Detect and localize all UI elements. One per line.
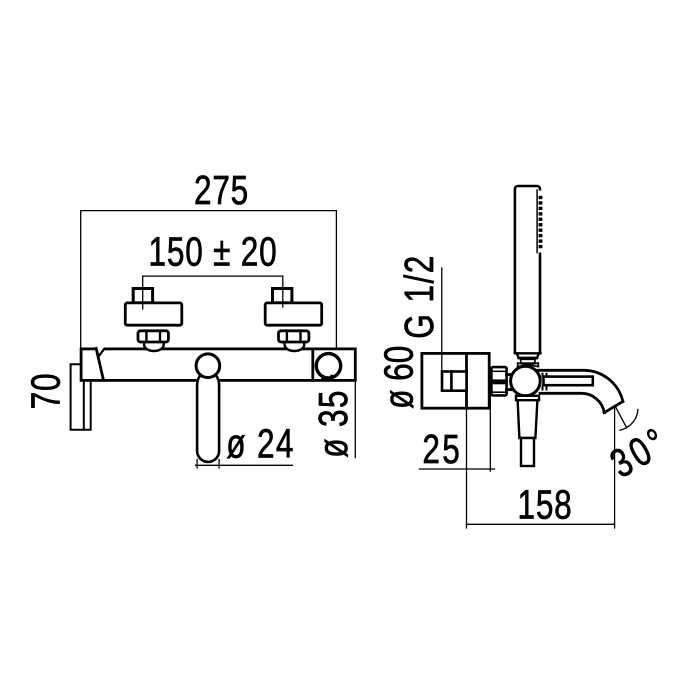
left end cap diagonal (96, 348, 103, 379)
neck lower line (519, 357, 537, 359)
right union: extension line 150 (282, 276, 284, 307)
knurled nut groove bottom (492, 391, 506, 393)
svg-text:275: 275 (194, 167, 249, 213)
handle stem (197, 375, 219, 462)
hand shower neck top line (515, 352, 541, 354)
dim ø24 line (196, 464, 293, 466)
svg-text:ø 60: ø 60 (376, 346, 422, 409)
svg-text:G 1/2: G 1/2 (396, 254, 442, 339)
left end cap notch (99, 349, 104, 356)
hand shower spray face line (536, 190, 538, 253)
side handle stem (521, 438, 534, 466)
knurled nut groove top (492, 370, 506, 372)
left union: nut facets (146, 331, 160, 341)
svg-text:150 ± 20: 150 ± 20 (149, 229, 278, 275)
dim 150±20 line (143, 275, 283, 277)
left union: top square (133, 289, 152, 303)
dim ø24 ticks (197, 460, 219, 469)
svg-text:ø 35: ø 35 (310, 389, 356, 457)
wall plate divider (465, 353, 468, 408)
hand shower spray strip gap (538, 191, 544, 253)
nut-to-ball link top (507, 373, 514, 376)
dim 25 / 158 left extension (466, 408, 468, 528)
spout inner sleeve (544, 377, 593, 386)
right union: top square (273, 289, 292, 303)
side handle grip (518, 400, 538, 438)
wall bracket (left) (71, 364, 91, 429)
dim 158 line (466, 523, 614, 525)
spout upper outline (538, 370, 623, 401)
diverter knob circle (316, 354, 340, 378)
right union: bottom collar (285, 341, 305, 351)
svg-text:ø 24: ø 24 (226, 421, 294, 467)
dim 275 left extension line (80, 211, 82, 349)
left union: bottom collar (144, 341, 164, 351)
dim 275 right extension line (335, 211, 337, 349)
dim ø35 extension line (354, 380, 356, 457)
left union: rosette (125, 303, 182, 325)
dim 25 right extension (489, 396, 491, 471)
spout tip face (604, 401, 623, 412)
dim 275 line (81, 210, 337, 212)
svg-text:25: 25 (422, 426, 462, 472)
G1/2 connection divider (450, 372, 453, 391)
hand shower body (515, 186, 540, 353)
spout joint tick top (543, 374, 547, 377)
diverter knob ticks (323, 376, 332, 380)
hand shower nozzles (539, 196, 543, 199)
wall plate square (422, 353, 489, 408)
knurled nut (491, 367, 506, 395)
angle 30 arc (620, 409, 638, 430)
nut-to-ball link bottom (507, 388, 514, 391)
body outline (81, 349, 355, 381)
valve ball (511, 366, 541, 396)
hand shower neck taper (517, 353, 539, 358)
right union: nut (279, 331, 309, 342)
right union: rosette (265, 303, 322, 325)
spout lower outline (540, 393, 604, 412)
knurled nut groove middle (493, 379, 506, 384)
left union: nut (138, 331, 168, 342)
swivel X joint (518, 363, 539, 367)
dim G 1/2 leader line (441, 268, 443, 371)
handle ball (196, 354, 220, 378)
left end cap notch gap (97, 347, 104, 351)
G1/2 connection rect (442, 372, 467, 391)
angle 30 leg (616, 407, 627, 427)
right union: nut facets (287, 331, 301, 341)
svg-text:70: 70 (23, 373, 69, 410)
wall bracket inner line (83, 381, 85, 430)
end block divider (311, 349, 314, 381)
side handle collar (516, 396, 539, 400)
spout joint tick bottom (543, 387, 547, 390)
left union: extension line 150 (142, 276, 144, 309)
dim 158 right extension (614, 407, 616, 528)
svg-text:158: 158 (517, 482, 572, 528)
swivel X sides (518, 363, 539, 367)
dim 25 line (419, 468, 494, 470)
neck small rect (521, 359, 535, 363)
